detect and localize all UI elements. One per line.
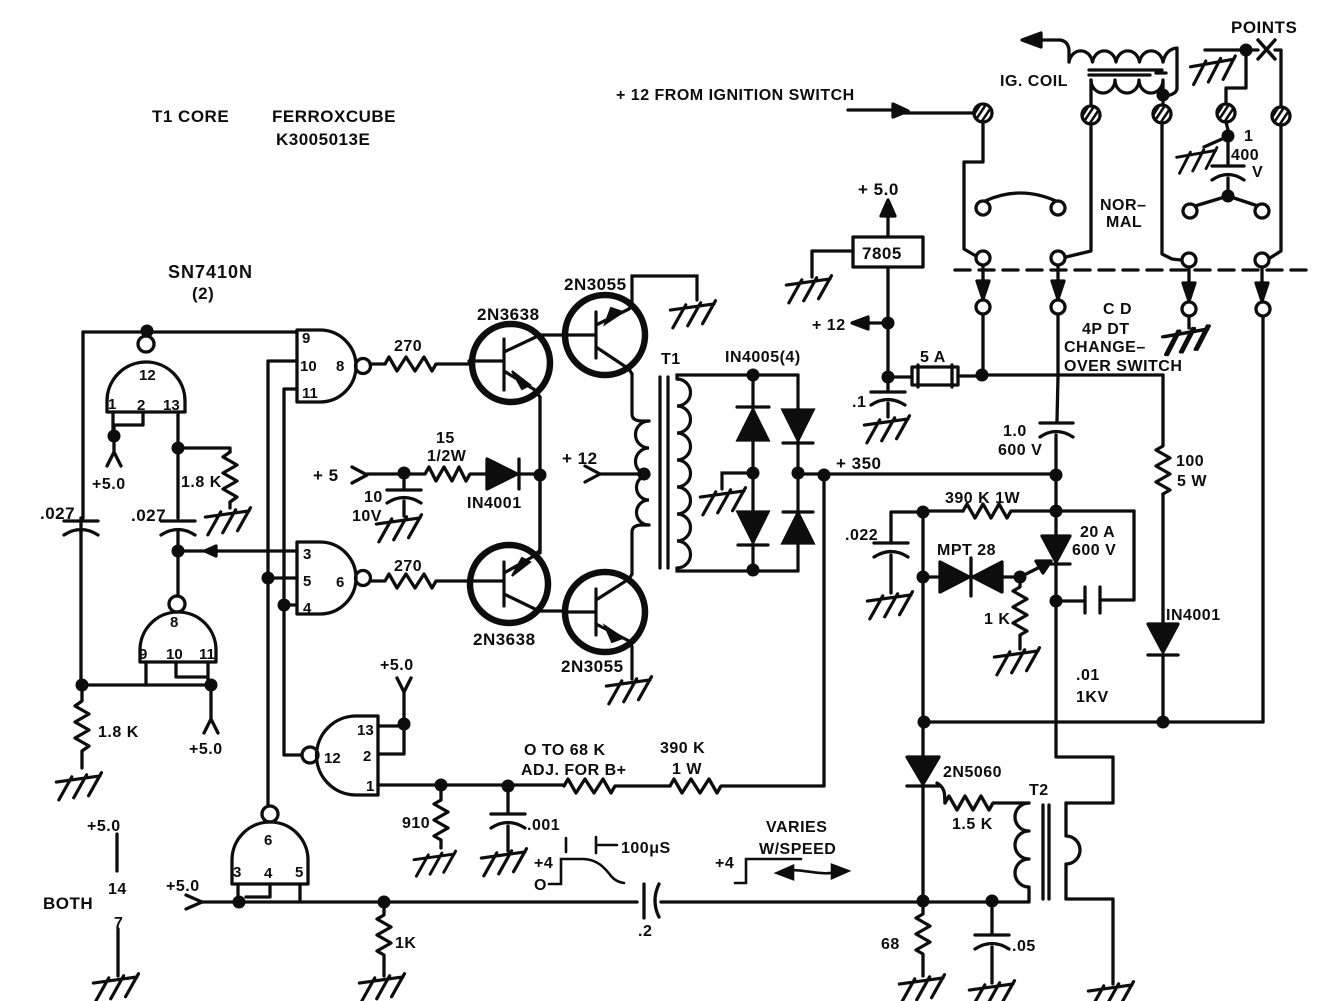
wire: left .027 bottom to bottom osc rail bbox=[79, 532, 82, 685]
junction: fuse / .1 / 7805 input bbox=[882, 371, 895, 384]
svg-text:270: 270 bbox=[394, 558, 422, 575]
+5.0 arrow symbol above U1d bbox=[397, 678, 411, 692]
svg-text:FERROXCUBE: FERROXCUBE bbox=[272, 107, 396, 126]
ground at 400V cap node bbox=[1176, 147, 1220, 173]
svg-text:1 K: 1 K bbox=[984, 611, 1010, 628]
junction: trigger rail / 1N4001 bbox=[1157, 716, 1170, 729]
svg-text:.2: .2 bbox=[638, 923, 652, 940]
capacitor 1 400V bbox=[1212, 142, 1244, 189]
capacitor .027 (left) bbox=[64, 518, 98, 535]
resistor 1.5K (horizontal) bbox=[945, 796, 1029, 810]
wire: IG coil primary left lead to terminal 2 bbox=[1089, 80, 1092, 105]
NORMAL bridging arc (poles 1,2) bbox=[985, 193, 1056, 201]
terminal 4 (hatched) bbox=[1217, 104, 1235, 122]
capacitor .027 (middle) bbox=[161, 521, 195, 535]
wire: line A tap to U2b pin5 bbox=[268, 576, 297, 579]
varies arrow (double headed) bbox=[784, 870, 840, 873]
junction: line A tap pin5 bbox=[262, 572, 275, 585]
capacitor 1.0 600V bbox=[1040, 423, 1073, 475]
wire: Q3 collector to Q4 base bbox=[537, 609, 565, 612]
svg-text:12: 12 bbox=[139, 367, 156, 384]
junction: bottom rail / 68 bbox=[917, 895, 930, 908]
junction: points net / condenser bbox=[1240, 44, 1253, 57]
wire: middle .027 bottom to gate U1b bubble bbox=[176, 532, 179, 596]
terminal 2 (hatched) bbox=[1082, 106, 1100, 124]
capacitor .2 (series, bottom rail) bbox=[644, 884, 659, 918]
svg-text:4P DT: 4P DT bbox=[1082, 321, 1130, 338]
ground below 10/10V bbox=[376, 515, 424, 542]
NAND gate U1b (pins 9,10,11 in / 8 out, dome up) bbox=[140, 612, 216, 662]
svg-text:6: 6 bbox=[336, 574, 344, 591]
pole 2 arrow bbox=[1056, 265, 1059, 281]
svg-text:13: 13 bbox=[163, 397, 180, 414]
svg-text:9: 9 bbox=[139, 646, 147, 663]
svg-text:ADJ. FOR B+: ADJ. FOR B+ bbox=[521, 762, 627, 779]
capacitor .022 bbox=[874, 543, 908, 593]
wire: 7805 output up with +5.0 arrow bbox=[886, 214, 889, 237]
fuse 5A bbox=[888, 375, 912, 378]
inverter bubble of U1a output 12 bbox=[138, 336, 154, 352]
svg-text:.1: .1 bbox=[852, 394, 866, 411]
svg-text:.05: .05 bbox=[1012, 938, 1036, 955]
arrowhead on pin3 wire bbox=[205, 546, 216, 556]
svg-text:O TO 68 K: O TO 68 K bbox=[524, 742, 606, 759]
svg-text:8: 8 bbox=[336, 358, 344, 375]
junction: U1d pins 13,2 +5 bbox=[398, 718, 411, 731]
junction: diac left bbox=[917, 571, 930, 584]
wire: 2N5060 cathode down to bottom rail bbox=[921, 786, 924, 901]
wire: 400V cap bottom V-split to NORMAL contacts of poles 3,4 bbox=[1195, 196, 1258, 206]
junction: 400V cap bottom node bbox=[1222, 190, 1235, 203]
resistor 100 5W (vertical) bbox=[1156, 375, 1170, 494]
svg-text:8: 8 bbox=[170, 614, 178, 631]
svg-text:(2): (2) bbox=[192, 284, 214, 303]
diode D3 1N4005 (left bottom) bbox=[738, 512, 768, 542]
wire: terminal4 down to 400V cap node bbox=[1226, 122, 1228, 130]
wire: terminal5 down to pole4 upper contact bbox=[1270, 125, 1281, 258]
svg-text:1: 1 bbox=[1244, 128, 1253, 145]
Q3 PNP emitter arrow bbox=[512, 558, 530, 576]
wire: main bottom rail left of .2 cap bbox=[202, 900, 637, 903]
wire: cap node to ground (left) bbox=[1204, 139, 1222, 147]
IG coil primary winding (bottom) bbox=[1091, 80, 1163, 93]
svg-text:1 W: 1 W bbox=[672, 761, 702, 778]
svg-text:2: 2 bbox=[137, 397, 145, 414]
junction: +350 / 1.0 cap bbox=[1050, 469, 1063, 482]
wire: bridge mid-left to ground bbox=[722, 473, 753, 489]
wire: middle node to U2b pin3 with arrow bbox=[178, 549, 297, 552]
junction: bottom rail / .05 bbox=[986, 895, 999, 908]
junction: +12 tap bbox=[882, 317, 895, 330]
svg-text:2N3055: 2N3055 bbox=[564, 275, 627, 294]
wire: bottom rail right of .2 cap bbox=[661, 899, 1029, 902]
junction: trigger rail / 2N5060 anode bbox=[918, 716, 931, 729]
wire: SCR cathode down to T2 secondary top bbox=[1056, 564, 1113, 803]
svg-text:1.0: 1.0 bbox=[1003, 423, 1027, 440]
ground below pin 7 bbox=[93, 974, 141, 1001]
svg-text:5 A: 5 A bbox=[920, 349, 946, 366]
pole 4 moving contact circle bbox=[1255, 253, 1269, 267]
resistor 270 (top) bbox=[370, 357, 469, 371]
ground below .05 bbox=[969, 981, 1017, 1001]
svg-text:V: V bbox=[1252, 164, 1263, 181]
pole 3 lower contact circle bbox=[1182, 302, 1196, 316]
svg-text:10: 10 bbox=[300, 358, 317, 375]
pole 1 moving contact circle bbox=[976, 251, 990, 265]
wire: U1a pin1 and pin2 tied to +5.0 bbox=[113, 412, 143, 435]
svg-text:IN4001: IN4001 bbox=[467, 495, 522, 512]
svg-text:+4: +4 bbox=[715, 855, 734, 872]
ground at changeover switch label bbox=[1162, 326, 1211, 355]
wire: pole3 lower to ground bbox=[1187, 316, 1190, 328]
+12 tap arrow (points left) bbox=[866, 321, 886, 324]
ground below 1.8K upper bbox=[205, 508, 253, 535]
Q4 internals bbox=[565, 574, 632, 647]
wire: top oscillator net (gate12 out / gateA pin9 / left .027 top) bbox=[83, 330, 297, 333]
spark output arrow from IG coil secondary bbox=[1040, 40, 1069, 62]
wire: feedback line B (U1d out 12 to U2a pin11 and U2b pin4) bbox=[284, 389, 302, 755]
svg-text:+ 12: + 12 bbox=[812, 317, 846, 334]
svg-text:270: 270 bbox=[394, 338, 422, 355]
wire: 7805 gnd pin to ground bbox=[812, 251, 853, 277]
wire: Q1 collector to Q2 base bbox=[538, 333, 566, 336]
pole 3 moving contact circle bbox=[1182, 253, 1196, 267]
svg-text:7805: 7805 bbox=[862, 244, 902, 263]
wire: U1b pin9 down to rail bbox=[144, 662, 147, 685]
svg-text:NOR–: NOR– bbox=[1100, 197, 1146, 214]
wire: commutation loop right side down bbox=[1100, 511, 1134, 600]
svg-text:5 W: 5 W bbox=[1177, 473, 1207, 490]
wire: ignition switch feed with arrowhead bbox=[848, 110, 974, 113]
transformer T1 core bbox=[660, 377, 668, 568]
wire: U1c pin3 down to bottom wire bbox=[236, 884, 239, 902]
svg-text:SN7410N: SN7410N bbox=[168, 262, 253, 282]
svg-text:MAL: MAL bbox=[1106, 214, 1142, 231]
svg-text:2N3638: 2N3638 bbox=[473, 630, 536, 649]
wire: pin7 stub to ground bbox=[116, 929, 119, 976]
resistor 270 (bottom) bbox=[370, 574, 469, 588]
NAND gate U1a (pins 1,2,13 in / 12 out, dome up) bbox=[107, 362, 185, 412]
resistor 1.8K (lower, vertical) bbox=[75, 691, 89, 768]
capacitor .001 bbox=[491, 786, 525, 851]
svg-text:13: 13 bbox=[357, 722, 374, 739]
svg-text:+5.0: +5.0 bbox=[87, 818, 121, 835]
svg-text:T1 CORE: T1 CORE bbox=[152, 107, 229, 126]
wire: pole2 lower down to 1.0uF cap bbox=[1057, 314, 1058, 421]
terminal 3 (hatched) bbox=[1153, 105, 1171, 123]
junction: U1a pins1,2 +5 bbox=[108, 430, 121, 443]
svg-text:5: 5 bbox=[295, 864, 303, 881]
wire: terminal1 down to pole1 upper contact bbox=[964, 122, 983, 256]
arrowhead +5.0 output bbox=[881, 200, 895, 216]
+5 input chevron to 15 ohm bbox=[352, 467, 367, 483]
pole 2 lower contact circle bbox=[1051, 300, 1065, 314]
ground below T2 secondary bbox=[1088, 982, 1136, 1001]
wire: pole1 lower to fuse node bbox=[981, 314, 984, 375]
wire: coil common dot to terminal 3 bbox=[1161, 96, 1164, 104]
resistor 390K 1W (horizontal) bbox=[963, 504, 1134, 518]
NAND gate U2a (pins 9,10,11 in / 8 out, facing right) bbox=[297, 330, 356, 402]
wire: +5.0 pin14/7 stub upper bbox=[115, 834, 118, 871]
diode D5 1N4001 (charge) bbox=[1148, 624, 1178, 652]
IG coil core bbox=[1089, 70, 1166, 75]
wire: 390K net (SCR anode to MPT28 divider) bbox=[923, 509, 963, 512]
wire: U1a pin13 down bbox=[176, 412, 179, 518]
svg-text:IN4001: IN4001 bbox=[1166, 607, 1221, 624]
ground for 7805 bbox=[786, 276, 834, 303]
wire: pin13 junction to resistor 1.8K (upper) bbox=[178, 448, 230, 452]
contact circle pole2 upper throw bbox=[1051, 201, 1065, 215]
svg-text:400: 400 bbox=[1231, 147, 1259, 164]
points breaker X symbol bbox=[1258, 40, 1275, 59]
NAND gate U1c (output 6, dome up, bubble top) bbox=[232, 822, 308, 884]
wire: U1b pins 10,11 to +5.0 junction bbox=[176, 662, 208, 685]
wire: +12 chevron to center tap bbox=[600, 472, 649, 475]
transformer T1 primary winding (lower half) bbox=[637, 475, 650, 525]
junction: T1 center tap bbox=[638, 468, 651, 481]
svg-text:+ 12: + 12 bbox=[562, 449, 598, 468]
ground below 910 bbox=[414, 851, 459, 876]
svg-text:1: 1 bbox=[108, 396, 116, 413]
wire: emitters rail to +12 node bbox=[538, 397, 541, 553]
transformer T1 primary winding (upper half) bbox=[636, 421, 650, 475]
svg-text:2N3055: 2N3055 bbox=[561, 657, 624, 676]
junction: 400V cap top node bbox=[1222, 130, 1235, 143]
svg-text:5: 5 bbox=[303, 573, 311, 590]
resistor 1K (vertical, bottom) bbox=[377, 902, 391, 976]
ground at bridge mid-left bbox=[700, 488, 748, 515]
diac MPT 28 bbox=[969, 558, 972, 596]
svg-text:390 K 1W: 390 K 1W bbox=[945, 490, 1021, 507]
terminal 1 (hatched) bbox=[974, 104, 992, 122]
svg-text:9: 9 bbox=[302, 330, 310, 347]
wire: +5.0 down to U1d pins 13,2 bbox=[378, 692, 404, 754]
svg-text:10: 10 bbox=[364, 489, 383, 506]
svg-text:+5.0: +5.0 bbox=[92, 476, 126, 493]
wire: 1.0 cap bottom node down to SCR anode bbox=[1054, 475, 1057, 536]
svg-text:W/SPEED: W/SPEED bbox=[759, 841, 836, 858]
wire: T1 secondary bottom to bridge bbox=[677, 568, 798, 571]
svg-text:.01: .01 bbox=[1076, 667, 1100, 684]
inverter bubble U1d output 12 bbox=[302, 747, 318, 763]
+5.0 arrow symbol below bottom rail right end bbox=[204, 691, 218, 733]
svg-text:12: 12 bbox=[324, 750, 341, 767]
junction: diac right / 1K / gate bbox=[1014, 571, 1027, 584]
svg-text:.022: .022 bbox=[845, 527, 878, 544]
junction: bridge top AC bbox=[747, 369, 760, 382]
wire: bottom osc rail bbox=[82, 683, 211, 686]
svg-text:1: 1 bbox=[366, 778, 374, 795]
svg-text:2N3638: 2N3638 bbox=[477, 305, 540, 324]
svg-text:100: 100 bbox=[1176, 453, 1204, 470]
wire: 1N4001 cathode down to trigger rail bbox=[1161, 657, 1164, 722]
wire: 2N5060 gate to 1.5K bbox=[937, 783, 945, 803]
svg-text:10V: 10V bbox=[352, 508, 382, 525]
ground below .022 bbox=[867, 592, 915, 619]
capacitor .01 1KV (commutation) bbox=[1085, 587, 1100, 613]
contact circle pole1 upper throw bbox=[976, 201, 990, 215]
junction: +12 emitters node bbox=[534, 469, 547, 482]
junction: bottom rail right +5 bbox=[205, 679, 218, 692]
wire: left vertical to .027 cap bbox=[81, 332, 84, 518]
junction: bridge mid-right +350 bbox=[792, 467, 805, 480]
svg-text:+5.0: +5.0 bbox=[189, 741, 223, 758]
wire: 100 ohm to 1N4001 anode bbox=[1161, 494, 1164, 624]
svg-text:1/2W: 1/2W bbox=[427, 448, 467, 465]
junction: +350 / B+ adj bbox=[818, 469, 831, 482]
ground at points net left end bbox=[1190, 56, 1239, 85]
svg-text:68: 68 bbox=[881, 936, 900, 953]
svg-text:10: 10 bbox=[166, 646, 183, 663]
junction: .027 / U1b out / U2b pin3 bbox=[172, 545, 185, 558]
svg-text:4: 4 bbox=[264, 865, 273, 882]
ground below 1K bbox=[359, 974, 407, 1001]
wire: U1c pin4 down to bottom wire bbox=[246, 884, 270, 897]
junction: SCR cathode / commutation cap bbox=[1050, 595, 1063, 608]
resistor 68 (vertical) bbox=[916, 908, 930, 976]
transformer T2 secondary winding bbox=[1066, 803, 1080, 899]
wire: IG coil secondary right end loop to common bbox=[1163, 48, 1177, 96]
junction: line B tap pin4 bbox=[278, 599, 291, 612]
wire: points net top bbox=[1205, 50, 1281, 107]
svg-text:VARIES: VARIES bbox=[766, 819, 827, 836]
wire: fuse to switch pole 1 bbox=[958, 374, 982, 377]
svg-text:3: 3 bbox=[303, 546, 311, 563]
wire: T1 secondary top to bridge bbox=[677, 375, 798, 379]
wire: +350 rail bbox=[798, 472, 1056, 475]
ground below .001 bbox=[481, 849, 529, 876]
transistor Q2 2N3055 (top) circle bbox=[565, 295, 645, 375]
transformer T1 secondary winding bbox=[677, 379, 691, 568]
transformer T2 primary winding bbox=[1015, 803, 1029, 899]
svg-text:4: 4 bbox=[303, 600, 312, 617]
svg-text:+4: +4 bbox=[534, 855, 553, 872]
inverter bubble U2a output 8 bbox=[356, 359, 371, 374]
wire: feedback line A (U1c out 6 to U2a pin10 and U2b pin5) bbox=[268, 361, 297, 806]
svg-text:+ 5: + 5 bbox=[313, 466, 339, 485]
ground for Q2 emitter bbox=[670, 301, 718, 328]
ground below 1.8K lower bbox=[56, 773, 104, 800]
svg-text:C D: C D bbox=[1103, 301, 1132, 318]
svg-text:100μS: 100μS bbox=[621, 840, 671, 857]
junction: bridge mid-left ground bbox=[747, 467, 760, 480]
svg-text:T1: T1 bbox=[661, 351, 681, 368]
SCR 2N5060 (triangle + bar) bbox=[907, 757, 939, 784]
wire: Q2 emitter up to ground bracket bbox=[629, 276, 697, 309]
dashed mechanical link of changeover switch bbox=[955, 268, 1310, 271]
wire: Q4 collector up to T1 primary bottom bbox=[632, 525, 649, 574]
NAND gate U1d (output 12 facing left) bbox=[317, 716, 379, 795]
diode D4 1N4005 (right bottom) bbox=[783, 510, 813, 513]
wire: B+ adj line up to +350 bbox=[822, 477, 825, 786]
wire: terminal3 down to pole3 upper contact bbox=[1162, 123, 1181, 260]
Q1 PNP emitter arrow bbox=[512, 371, 530, 389]
svg-text:+5.0: +5.0 bbox=[380, 657, 414, 674]
svg-text:11: 11 bbox=[302, 385, 318, 402]
wire: divider vertical (390K left to diac to trigger rail) bbox=[921, 512, 924, 757]
wire: U1c pin5 down to bottom wire bbox=[298, 884, 301, 902]
svg-text:BOTH: BOTH bbox=[43, 894, 93, 913]
wire: terminal2 down to pole2 upper contact bbox=[1066, 124, 1091, 257]
ground below 1K gate resistor bbox=[994, 648, 1042, 675]
wire: 7805 input down to +12 node and fuse node bbox=[886, 267, 889, 377]
svg-text:OVER SWITCH: OVER SWITCH bbox=[1064, 358, 1182, 375]
junction: bottom rail / 1K bbox=[378, 896, 391, 909]
pole 1 lower contact circle bbox=[976, 300, 990, 314]
contact circle pole3 upper throw bbox=[1183, 204, 1197, 218]
junction: 390K right / SCR anode bbox=[1050, 505, 1063, 518]
resistor 390K 1W bottom (horizontal) bbox=[670, 779, 824, 793]
svg-text:+ 350: + 350 bbox=[836, 454, 882, 473]
svg-text:+5.0: +5.0 bbox=[166, 878, 200, 895]
diode D2 1N4005 (right top) bbox=[783, 410, 813, 440]
svg-text:3: 3 bbox=[233, 864, 241, 881]
svg-text:15: 15 bbox=[436, 430, 455, 447]
junction: bottom rail left bbox=[76, 679, 89, 692]
wire: U1a bubble to top rail bbox=[144, 332, 147, 336]
wire: bridge right branch bbox=[796, 375, 799, 571]
svg-text:IG. COIL: IG. COIL bbox=[1000, 73, 1068, 90]
wire: bridge left branch bbox=[751, 375, 754, 571]
wire: diac left lead bbox=[923, 575, 940, 578]
ground below .1 bbox=[864, 416, 912, 443]
svg-text:O: O bbox=[534, 877, 547, 894]
wire: trigger rail (2N5060 anode to right edge) bbox=[924, 720, 1263, 723]
pole 4 arrow bbox=[1260, 267, 1263, 283]
wire: pole4 lower down the right edge to trigger rail bbox=[1261, 316, 1264, 722]
junction: 390K left / .022 bbox=[917, 506, 930, 519]
junction: +5 / 15 ohm / 10uF bbox=[398, 467, 411, 480]
pole 2 moving contact circle bbox=[1051, 251, 1065, 265]
Q1 internals: base bar, base lead, collector, emitter bbox=[469, 336, 540, 397]
waveform 2: step, varies with speed bbox=[735, 859, 801, 883]
inverter bubble of U1b output 8 bbox=[169, 596, 185, 612]
svg-text:600 V: 600 V bbox=[998, 442, 1042, 459]
wire: Q2 collector down to T1 primary top bbox=[632, 374, 649, 421]
resistor 910 (vertical) bbox=[434, 785, 448, 848]
svg-text:K3005013E: K3005013E bbox=[276, 130, 370, 149]
junction: pin13 / 1.8K bbox=[172, 442, 185, 455]
junction: bridge bottom AC bbox=[747, 564, 760, 577]
wire: diac right lead bbox=[1002, 575, 1020, 578]
svg-text:1.8 K: 1.8 K bbox=[98, 724, 139, 741]
resistor 1K (SCR gate, vertical) bbox=[1013, 577, 1027, 649]
svg-text:2: 2 bbox=[363, 748, 371, 765]
contact circle pole4 upper throw bbox=[1255, 204, 1269, 218]
transistor Q1 2N3638 (top) circle bbox=[472, 324, 550, 402]
capacitor .1 bbox=[871, 377, 905, 417]
wire: diac to SCR gate with arrow bbox=[1020, 566, 1042, 577]
svg-text:MPT 28: MPT 28 bbox=[937, 542, 996, 559]
svg-text:1KV: 1KV bbox=[1076, 689, 1109, 706]
svg-text:1.5 K: 1.5 K bbox=[952, 816, 993, 833]
junction: U1d pin1 / 910 bbox=[435, 779, 448, 792]
pole 3 arrow bbox=[1187, 267, 1190, 283]
svg-text:1.8 K: 1.8 K bbox=[181, 474, 222, 491]
regulator U3 7805 box bbox=[853, 237, 923, 267]
svg-text:POINTS: POINTS bbox=[1231, 18, 1297, 37]
Q3 internals bbox=[469, 550, 540, 610]
junction: U1a output on top rail bbox=[141, 325, 154, 338]
capacitor 10/10V bbox=[387, 474, 421, 516]
+5.0 arrow symbol below U1a pins 1,2 bbox=[107, 441, 121, 466]
IG coil secondary winding (top) bbox=[1069, 51, 1163, 62]
wire: Q3 emitter up to +12 node bbox=[538, 475, 541, 550]
wire: SCR cathode node to commutation cap bbox=[1063, 599, 1085, 602]
svg-text:600 V: 600 V bbox=[1072, 542, 1116, 559]
pole 1 arrow bbox=[981, 265, 984, 281]
svg-text:11: 11 bbox=[199, 646, 215, 663]
